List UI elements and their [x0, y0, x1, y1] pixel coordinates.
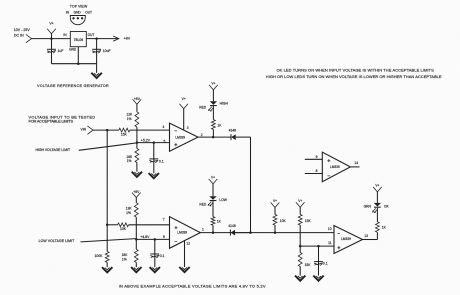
capacitor C2 10uF [92, 39, 110, 73]
junction dot OR node [249, 231, 252, 234]
junction dot - LOW led branch [212, 231, 215, 234]
label - voltage input leader low [39, 239, 136, 243]
ground symbol - C4 [150, 267, 160, 272]
resistor R5 1K [211, 106, 222, 137]
op-amp U1a LM339 (high comparator) [162, 123, 202, 151]
wire - VIN vertical bus [106, 130, 108, 251]
resistor R6 10K [118, 223, 129, 231]
wire - VIN to comparator A [93, 129, 170, 131]
resistor R8 18K 1% [122, 239, 139, 267]
wire - OR node vertical [250, 137, 252, 233]
node D junction [299, 245, 302, 248]
resistor R12 15K [298, 246, 311, 276]
resistor R10 10K pull-up [273, 214, 286, 232]
ground symbol - pin 12 [179, 267, 189, 272]
resistor R9 1K [211, 201, 222, 233]
V+ supply arrow - reference divider [296, 199, 305, 215]
resistor R11 15K [298, 214, 311, 225]
V+ supply arrow - HIGH led [209, 81, 218, 101]
ground symbol - 18K lower [131, 267, 141, 272]
ground symbol - 15K [295, 276, 305, 281]
+8V supply arrow - upper divider [133, 97, 142, 112]
wire - regulator GND pin [77, 47, 79, 64]
TO-92 package top view labels [66, 5, 92, 15]
V+ supply arrow - pull-up resistor [271, 199, 280, 214]
resistor R4 18K 1% [126, 143, 138, 172]
wire - node B to comparator A +input [137, 142, 170, 144]
resistor R2 100K [94, 251, 109, 262]
wire - node D to comparator C +input [300, 245, 334, 247]
diode D2 4148 [228, 224, 236, 236]
wire - comparator C output [363, 232, 378, 239]
resistor R7 13K 1% [126, 203, 138, 218]
ground symbol - C5 [313, 276, 323, 281]
label - voltage input to be tested [29, 114, 96, 123]
capacitor C5 0.1 [314, 246, 328, 276]
wire - ground bus [52, 63, 97, 65]
junction dot VIN vertical [106, 129, 109, 132]
regulator U1 78L08 [63, 32, 94, 52]
DC input label [14, 28, 31, 37]
node C +4.8V junction [135, 235, 150, 241]
junction dot - HIGH led branch [212, 136, 215, 139]
resistor R13 1K [376, 208, 387, 233]
TO-92 package outline (top view) [70, 16, 85, 25]
+8V supply arrow - lower divider [132, 190, 141, 203]
wire - OR node to comparator C [235, 232, 334, 234]
LED OK (green) [364, 203, 390, 213]
LED HIGH (red) [199, 101, 228, 111]
wire - comparator A output [198, 136, 231, 138]
junction dot node D cap [317, 245, 320, 248]
op-amp U1b LM339 (low comparator) [163, 217, 204, 249]
leader line - high voltage limit [36, 143, 137, 152]
resistor R1 15K [119, 128, 130, 136]
capacitor C1 1uF [47, 39, 63, 64]
op-amp U1d LM339 (unused) [316, 152, 359, 182]
junction dot node C cap [154, 238, 157, 241]
junction dot node B cap [153, 141, 156, 144]
LED LOW (red) [199, 196, 227, 206]
V+ supply arrow at input [47, 22, 56, 39]
wire - U1d input stubs [305, 159, 323, 173]
wire - input to regulator IN [32, 38, 71, 40]
junction dot out/cap [95, 37, 98, 40]
op-amp U1c LM339 (OK comparator) [328, 226, 368, 254]
ground symbol - C3 [149, 173, 159, 178]
diode D1 4148 [229, 129, 237, 141]
wire - 12K to node B (crosses VIN wire) [136, 127, 138, 143]
wire - U1d output stub [350, 166, 359, 168]
wire - comparator B output [200, 232, 250, 234]
wire - 13K to node C (crosses lower VIN wire) [135, 217, 137, 239]
wire - comparator B ground pin 12 [184, 241, 186, 267]
V+ supply arrow - LOW led [209, 176, 218, 197]
wire - 100K to ground [106, 262, 108, 267]
node B +5.2V junction [136, 138, 151, 143]
wire - regulator OUT to +8V arrow [86, 36, 119, 41]
wire - VIN to comparator B [107, 224, 169, 226]
capacitor C3 0.1 [149, 143, 163, 174]
V+ supply arrow - OK led [373, 184, 382, 203]
note text - LED behaviour [266, 67, 442, 79]
junction dot gnd bus [77, 62, 80, 64]
ground symbol - 18K [132, 172, 142, 177]
DC input terminal chevron [26, 34, 32, 42]
capacitor C4 0.1 [150, 239, 164, 267]
wire - R11 to node D (crosses OR wire) [299, 225, 301, 246]
junction dot input/cap [50, 37, 53, 40]
node VIN input [81, 126, 94, 134]
V+ supply arrow - comparator A power pin 3 [179, 97, 188, 130]
resistor R3 12K 1% [126, 112, 138, 127]
wire - D1 to OR node [236, 136, 251, 138]
junction dot VIN lower [106, 224, 109, 227]
ground symbol - regulator [91, 73, 101, 78]
ground symbol - 100K [102, 267, 112, 272]
junction dot pull-up [274, 231, 277, 234]
wire - node C to comparator B -input [136, 238, 169, 240]
